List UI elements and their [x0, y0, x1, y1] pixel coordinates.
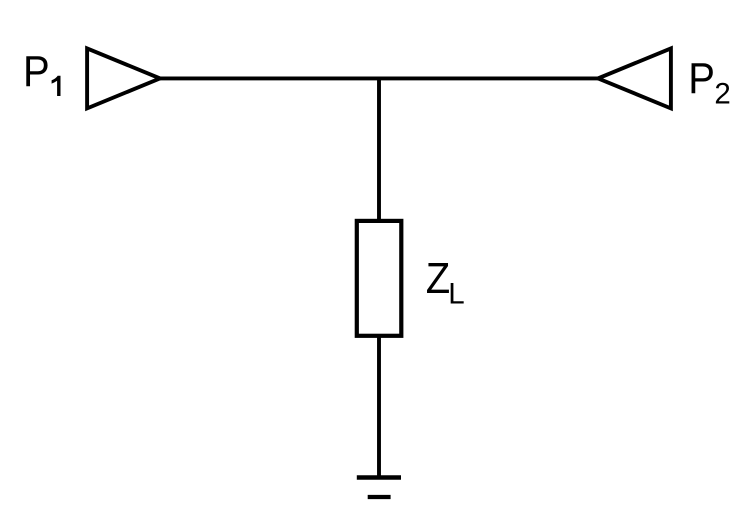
- ground bar 1: [357, 475, 401, 479]
- svg-text:P: P: [23, 46, 50, 95]
- svg-text:L: L: [448, 278, 464, 311]
- svg-text:P: P: [688, 53, 715, 102]
- port P1 triangle: [87, 48, 160, 108]
- wire vertical from ZL to ground: [377, 336, 381, 478]
- svg-text:Z: Z: [426, 253, 450, 302]
- wire vertical from junction down to ZL: [377, 78, 381, 221]
- ground bar 2: [368, 495, 391, 499]
- label P1 subscript 1: [52, 76, 61, 96]
- svg-text:2: 2: [714, 78, 730, 111]
- wire horizontal P1 apex to P2 apex: [160, 76, 598, 80]
- port P2 triangle: [598, 48, 671, 108]
- impedance ZL rectangle: [357, 221, 402, 336]
